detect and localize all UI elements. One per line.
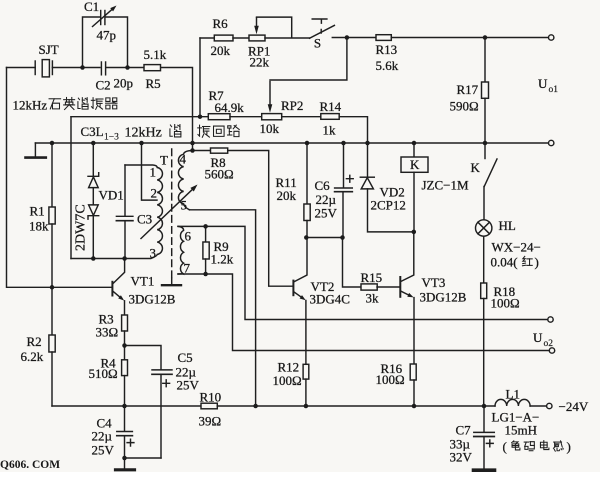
svg-text:20k: 20k: [211, 43, 231, 58]
junction node at (414,143): [412, 141, 417, 146]
transformer T: primary winding 1-2-3: [125, 165, 163, 259]
svg-text:C3L: C3L: [81, 124, 104, 139]
svg-text:R15: R15: [361, 270, 383, 285]
svg-text:18k: 18k: [29, 219, 49, 234]
resistor R10 39 ohm: [52, 405, 201, 407]
svg-text:3DG12B: 3DG12B: [420, 290, 467, 305]
junction node at (346.9,37.5): [345, 35, 350, 40]
resistor R14 1k: [282, 116, 321, 118]
wire: pin7 line to Uo2 lower: [178, 274, 549, 351]
svg-text:5: 5: [181, 198, 188, 213]
svg-text:1k: 1k: [323, 123, 337, 138]
junction node at (205.6,226.4): [203, 224, 208, 229]
svg-text:100Ω: 100Ω: [273, 373, 302, 388]
svg-text:o1: o1: [549, 85, 559, 95]
resistor R11 20k: [306, 143, 308, 204]
svg-text:1: 1: [150, 165, 157, 180]
svg-text:R14: R14: [320, 99, 342, 114]
svg-text:3: 3: [150, 246, 157, 261]
svg-text:6: 6: [185, 229, 192, 244]
svg-text:12kHz: 12kHz: [125, 126, 162, 141]
svg-text:(: (: [503, 439, 507, 454]
svg-text:Q606. COM: Q606. COM: [0, 459, 60, 471]
wire: pin6 line to Uo2 upper: [178, 226, 548, 319]
junction node at (343.5,143): [341, 141, 346, 146]
svg-text:R6: R6: [213, 16, 229, 31]
resistor R18 100 ohm: [483, 236, 485, 283]
svg-text:C2: C2: [96, 78, 111, 93]
svg-text:C1: C1: [84, 0, 99, 14]
junction node at (124.5,406): [122, 404, 127, 409]
svg-text:10k: 10k: [260, 121, 280, 136]
svg-text:VD1: VD1: [99, 188, 124, 203]
resistor R1 18k: [51, 143, 53, 207]
diode VD2 2CP12: [367, 143, 369, 177]
junction node at (367.5,143): [365, 141, 370, 146]
svg-text:510Ω: 510Ω: [89, 366, 118, 381]
wire: R14 right down to bus: [339, 117, 367, 143]
svg-text:3DG12B: 3DG12B: [129, 292, 176, 307]
wire: top-left crystal loop, y=67.5: [7, 68, 193, 151]
junction node at (93.3,143): [91, 141, 96, 146]
resistor R8 560 ohm: [193, 150, 211, 152]
label: (red) after 0.04: [522, 256, 532, 265]
svg-text:R10: R10: [200, 390, 222, 405]
terminal Uo2 lower: [549, 348, 554, 353]
svg-text:R13: R13: [376, 42, 398, 57]
svg-text:C3: C3: [137, 212, 152, 227]
resistor R2 6.2k: [49, 335, 55, 352]
resistor R9 1.2k: [205, 226, 207, 242]
potentiometer RP2 10k: [230, 116, 262, 118]
svg-text:47p: 47p: [97, 28, 117, 43]
svg-text:25V: 25V: [177, 378, 200, 393]
junction node at (124.5,345.5): [122, 343, 127, 348]
svg-text:C5: C5: [178, 350, 193, 365]
wire: bus tap strap to winding: [142, 143, 158, 200]
transformer core (dashed): [171, 149, 173, 278]
wire: pin5 to feedback rail x=255.6: [190, 210, 256, 406]
transformer T: winding 4-5: [178, 151, 192, 210]
svg-text:3k: 3k: [366, 291, 380, 306]
svg-text:2: 2: [151, 186, 158, 201]
capacitor C1 (variable, 47p): [100, 11, 102, 25]
svg-text:): ): [535, 255, 539, 270]
svg-text:3DG4C: 3DG4C: [310, 292, 350, 307]
svg-text:C7: C7: [456, 423, 472, 438]
wire: C4/C5 ground link y=458: [125, 457, 162, 459]
svg-text:HL: HL: [499, 218, 516, 233]
svg-text:T: T: [160, 153, 168, 168]
lamp HL WX-24-0.04: [483, 187, 485, 221]
junction node at (124.6,258.5): [122, 256, 127, 261]
resistor R4 510 ohm: [124, 346, 126, 360]
resistor R16 100 ohm: [410, 364, 416, 380]
junction node at (414,406): [412, 404, 417, 409]
switch S: [310, 25, 335, 38]
svg-text:22µ: 22µ: [92, 429, 113, 444]
svg-text:): ): [567, 439, 571, 454]
svg-text:64.9k: 64.9k: [215, 100, 245, 115]
svg-text:RP2: RP2: [281, 98, 303, 113]
terminal Uo1 top: [549, 35, 554, 40]
junction node at (306.3,237.5): [304, 235, 309, 240]
svg-text:12kHz: 12kHz: [13, 98, 48, 113]
transformer T: winding 6-7: [178, 226, 184, 274]
junction node at (141.5,143): [139, 141, 144, 146]
svg-text:U: U: [533, 330, 543, 345]
svg-text:2CP12: 2CP12: [371, 198, 406, 213]
svg-text:590Ω: 590Ω: [450, 99, 479, 114]
svg-text:20k: 20k: [277, 188, 297, 203]
junction node at (192.5,150.5): [190, 148, 195, 153]
wire: box bottom / VD1-C3-VT1 collector node y=258.5: [71, 258, 125, 260]
svg-text:R2: R2: [27, 334, 42, 349]
ground (C7): [474, 468, 495, 472]
junction node at (485,143): [483, 141, 488, 146]
svg-text:WX−24−: WX−24−: [492, 240, 541, 255]
svg-text:22k: 22k: [250, 55, 270, 70]
junction node at (484,406): [482, 404, 487, 409]
junction node at (52,287.3): [50, 285, 55, 290]
junction node at (413.8,231.9): [412, 230, 417, 235]
svg-text:5.6k: 5.6k: [376, 58, 399, 73]
resistor R13 5.6k: [376, 35, 391, 41]
junction node at (305.9,406): [304, 404, 309, 409]
wire: drive to R15: [343, 238, 362, 288]
ground (top-left, bus): [34, 143, 36, 157]
junction node at (124.5,458): [122, 456, 127, 461]
resistor R15 3k: [361, 284, 377, 290]
svg-text:25V: 25V: [92, 443, 115, 458]
svg-text:VT1: VT1: [131, 274, 155, 289]
capacitor C5 22u 25V: [125, 346, 162, 370]
junction node at (255.6,406): [253, 404, 258, 409]
junction node at (200,116.7): [198, 114, 203, 119]
svg-text:S: S: [314, 36, 321, 51]
svg-text:32V: 32V: [450, 450, 473, 465]
junction node at (307,143): [305, 141, 310, 146]
junction node at (205.6,274): [203, 272, 208, 277]
transistor VT3 3DG12B: [401, 232, 414, 282]
resistor R5 5.1k: [144, 65, 161, 71]
svg-text:25V: 25V: [315, 206, 338, 221]
svg-text:C6: C6: [315, 178, 331, 193]
resistor R17 590 ohm: [484, 38, 486, 83]
resistor R7 64.9k: [208, 114, 230, 120]
svg-text:L1: L1: [506, 387, 520, 402]
svg-text:33Ω: 33Ω: [96, 325, 119, 340]
junction node at (485,37.5): [483, 35, 488, 40]
svg-text:100Ω: 100Ω: [491, 296, 520, 311]
svg-text:R5: R5: [146, 76, 161, 91]
transistor VT1 3DG12B: [111, 282, 113, 296]
wire: left rail x=6.5 down to VT1 base line: [7, 68, 112, 288]
box: 12kHz resonant circuit frame (left edge): [70, 117, 72, 259]
svg-text:1−3: 1−3: [104, 133, 119, 143]
switch K (relay contact): [484, 143, 486, 159]
svg-text:−24V: −24V: [559, 399, 589, 414]
resistor R6 20k: [200, 37, 214, 39]
resistor R12 100 ohm: [303, 364, 309, 379]
svg-text:20p: 20p: [114, 76, 134, 91]
svg-text:560Ω: 560Ω: [205, 167, 234, 182]
svg-text:SJT: SJT: [39, 42, 59, 57]
potentiometer RP1 22k: [233, 37, 249, 39]
wire: R8 to VT2 base: [228, 151, 293, 287]
junction node at (93.3,258.5): [91, 256, 96, 261]
tuning arrow (core adjust): [141, 190, 192, 239]
svg-text:R17: R17: [457, 82, 479, 97]
inductor L1 LG1-A-15mH: [495, 399, 530, 406]
capacitor C6 22u 25V: [343, 143, 345, 187]
svg-text:o2: o2: [544, 339, 554, 349]
junction node at (52,143): [50, 141, 55, 146]
wire: C1 parallel branch: [83, 17, 128, 68]
terminal -24V: [547, 403, 552, 408]
svg-text:4: 4: [180, 152, 187, 167]
svg-text:5.1k: 5.1k: [144, 47, 167, 62]
junction node at (192.5,143): [190, 141, 195, 146]
relay K JZC-1M: [413, 143, 415, 157]
wire: S junction down to RP2 wiper line: [270, 38, 347, 81]
wire: R7-RP2-R14 line y=116.7 (box top edge): [71, 116, 208, 118]
wire: R6 branch from x=200: [199, 38, 201, 117]
svg-text:15mH: 15mH: [505, 423, 538, 438]
svg-text:R1: R1: [30, 204, 45, 219]
junction node at (127.5,67.5): [125, 65, 130, 70]
svg-text:JZC−1M: JZC−1M: [422, 178, 470, 193]
capacitor C7 33u 32V: [483, 406, 485, 432]
capacitor C2 20p: [100, 62, 102, 75]
ground (transformer core): [171, 278, 173, 284]
svg-text:6.2k: 6.2k: [21, 349, 44, 364]
svg-text:U: U: [538, 76, 548, 91]
junction node at (82.5,67.5): [80, 65, 85, 70]
junction node at (342.5,237.5): [340, 235, 345, 240]
svg-text:K: K: [471, 160, 481, 175]
wire: VT2 collector to C6 bottom node: [306, 237, 342, 239]
svg-text:1.2k: 1.2k: [211, 252, 234, 267]
svg-text:2DW7C: 2DW7C: [74, 204, 89, 251]
capacitor C3: [124, 165, 126, 259]
svg-text:0.04(: 0.04(: [491, 255, 518, 270]
crystal SJT: [34, 61, 36, 75]
terminal Uo1 bottom / bus end: [549, 140, 554, 145]
svg-text:7: 7: [184, 261, 191, 276]
ground (C4): [116, 468, 135, 471]
wire: R13 to Uo1 terminal: [391, 37, 548, 39]
svg-text:VT3: VT3: [422, 275, 446, 290]
wire: main bus y=143: [35, 142, 548, 144]
resistor R3 33 ohm: [122, 315, 128, 331]
capacitor C4 22u 25V: [124, 406, 126, 431]
svg-text:100Ω: 100Ω: [376, 372, 405, 387]
zener VD1 2DW7C (back-to-back pair): [92, 143, 94, 259]
transistor VT2 3DG4C: [294, 238, 307, 282]
terminal Uo2 upper: [548, 317, 553, 322]
svg-text:39Ω: 39Ω: [199, 414, 222, 429]
svg-text:K: K: [410, 157, 420, 172]
